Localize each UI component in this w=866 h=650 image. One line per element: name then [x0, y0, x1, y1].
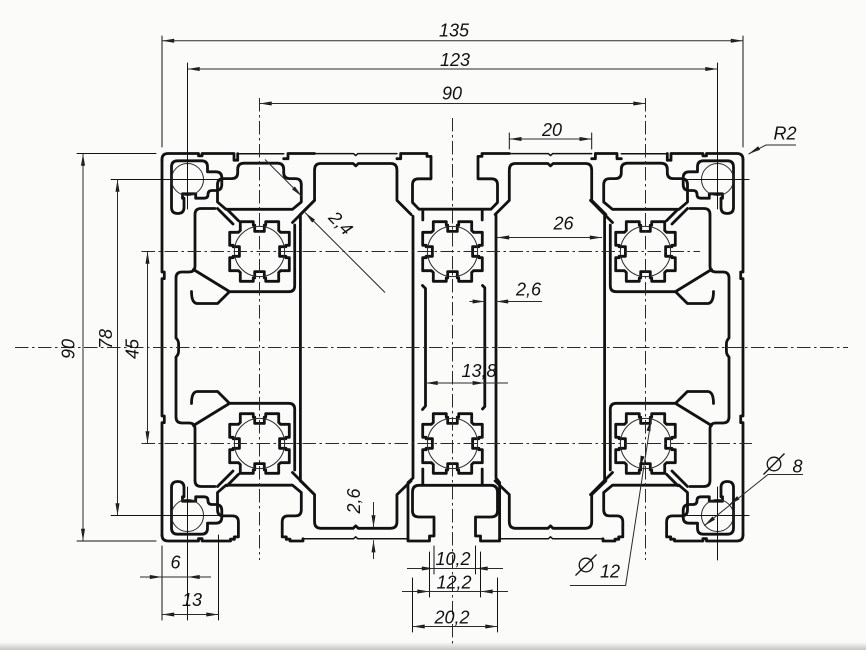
- dim 45 line with arrows: [146, 252, 150, 444]
- profile outer contour - bottom edge with center T-slot mouth: [162, 485, 743, 541]
- top-right corner screw hole circle: [702, 164, 734, 196]
- svg-text:20,2: 20,2: [433, 608, 469, 628]
- bottom web face right channel: [500, 537, 603, 539]
- top-left hole vertical centerline / ext: [187, 63, 189, 209]
- dim 12,2 extension lines: [430, 552, 481, 597]
- dim 13 extension line (block edge): [218, 535, 220, 620]
- dim 13 arrows: [162, 613, 219, 617]
- cell right SE thin wall pair: [591, 473, 613, 495]
- gear boss U2 (center top) thread circle: [427, 226, 477, 276]
- bottom web face left channel: [303, 537, 408, 539]
- gear boss U1 (left top) thread circle: [234, 226, 284, 276]
- svg-text:6: 6: [170, 553, 181, 573]
- svg-text:R2: R2: [773, 124, 796, 144]
- cell right inner void boundary along outer wall: [690, 209, 729, 487]
- cell left inner void boundary along outer wall: [176, 209, 215, 487]
- dim 2,6 web arrows: [372, 515, 376, 552]
- bottom-left hole vertical centerline / ext: [187, 487, 189, 620]
- cell right SW diagonal wall pair: [667, 471, 688, 487]
- svg-text:2,6: 2,6: [515, 280, 542, 300]
- right bottom channel web floor, walls and chamfers: [495, 481, 606, 528]
- column inner wall left upper stub: [421, 210, 424, 221]
- svg-text:135: 135: [439, 21, 470, 41]
- dim 78 extension lines: [111, 180, 157, 516]
- dim 20 line with arrows: [509, 137, 591, 141]
- vertical main centerline: [452, 118, 454, 645]
- bottom-right corner screw hole circle: [702, 500, 734, 532]
- diameter symbol for dia 12: [579, 558, 593, 572]
- dim 12,2 arrows: [417, 590, 492, 594]
- top-right hole vertical centerline / ext: [717, 63, 719, 209]
- svg-text:2,6: 2,6: [344, 488, 364, 515]
- dim 20 extension lines: [509, 133, 591, 149]
- svg-text:123: 123: [440, 50, 470, 70]
- right gear column centerline: [645, 98, 647, 560]
- cell right bottom boss T-slot (open): [604, 485, 688, 539]
- dim 10,2 extension lines: [434, 546, 476, 574]
- svg-text:13: 13: [182, 590, 202, 610]
- left gear column centerline: [259, 98, 261, 560]
- svg-text:90: 90: [59, 339, 79, 359]
- column inner wall right upper stub: [481, 210, 484, 221]
- top-right corner pocket outline: [683, 161, 733, 214]
- svg-text:13,8: 13,8: [461, 361, 496, 381]
- bottom gear row centerline: [142, 443, 753, 445]
- dim 90 left line with arrows: [81, 154, 85, 542]
- cell left NW diagonal wall pair: [218, 209, 239, 225]
- cell left NE thin wall pair: [293, 200, 315, 222]
- horizontal main centerline: [15, 347, 848, 349]
- svg-text:8: 8: [792, 457, 802, 477]
- cell left passage diagonal top: [194, 270, 229, 292]
- cell left room ceiling: [192, 225, 295, 304]
- cell right NW diagonal wall pair: [667, 209, 688, 225]
- dim 20,2 arrows: [413, 625, 498, 629]
- left bottom channel web floor, walls and chamfers: [300, 481, 411, 528]
- top membrane over right boss slot: [621, 153, 667, 155]
- bottom-right hole vertical centerline / ext: [717, 487, 719, 560]
- top membrane over right channel: [509, 154, 591, 156]
- cell right room floor: [610, 392, 713, 471]
- gear boss U2 (center top) chamber outline: [423, 222, 483, 282]
- svg-text:45: 45: [123, 338, 143, 359]
- bottom-left corner screw hole circle: [172, 500, 204, 532]
- cell left passage diagonal bottom: [194, 404, 229, 426]
- column inner wall left lower stub: [421, 469, 424, 484]
- dim 6 extension line (profile edge): [161, 546, 163, 620]
- center column right outer wall: [496, 215, 500, 540]
- dim 6 arrows: [150, 575, 200, 579]
- svg-text:26: 26: [552, 214, 574, 234]
- svg-text:90: 90: [442, 84, 462, 104]
- gear boss U3 (right top) chamber outline: [616, 222, 676, 282]
- gear boss U6 (right bottom) thread circle: [620, 418, 670, 468]
- top-left corner screw hole circle: [172, 164, 204, 196]
- gear boss U5 (center bottom) chamber outline: [423, 414, 483, 474]
- top-left corner pocket outline: [172, 161, 222, 214]
- gear boss U1 (left top) chamber outline: [230, 222, 290, 282]
- center column left outer wall: [408, 216, 413, 540]
- diameter symbol for dia 8: [767, 457, 781, 471]
- profile outer contour - right edge with notches: [741, 160, 743, 536]
- gear boss U5 (center bottom) thread circle: [427, 418, 477, 468]
- leader dia8 arrows: [704, 496, 739, 526]
- dim 20,2 extension lines: [413, 578, 498, 632]
- svg-text:10,2: 10,2: [435, 549, 470, 569]
- cell left room floor: [192, 392, 295, 471]
- svg-text:12: 12: [600, 562, 620, 582]
- dim 2,4 arrows: [292, 187, 315, 223]
- dim 90 left extension lines: [77, 154, 156, 542]
- cell right NE thin wall pair: [591, 200, 613, 222]
- dim 2,6 arrows: [473, 300, 509, 304]
- right top channel slot - recess floor, walls and chamfers: [495, 164, 606, 215]
- top-left corner hole crosshair: [156, 179, 231, 181]
- svg-text:78: 78: [96, 329, 116, 349]
- bottom-right corner pocket outline: [683, 482, 733, 535]
- gear boss U6 (right bottom) chamber outline: [616, 414, 676, 474]
- cell-1 right wall (left channel left side): [299, 215, 302, 481]
- cell right passage diagonal bottom: [677, 404, 712, 426]
- top gear row centerline: [142, 251, 701, 253]
- dim 135 line with arrows: [162, 39, 743, 43]
- gear boss U4 (left bottom) chamber outline: [230, 414, 290, 474]
- cell left bottom boss T-slot (open): [218, 485, 302, 539]
- dim 13,8 line with arrows: [426, 381, 485, 385]
- dim 90 top line with arrows: [260, 102, 646, 106]
- dim 26 line with arrows: [497, 236, 602, 240]
- cell right passage diagonal top: [677, 270, 712, 292]
- top-right corner hole crosshair: [674, 179, 749, 181]
- cell right top boss slot cavity: [604, 163, 688, 209]
- top membrane over left channel: [315, 154, 397, 156]
- bottom-left corner hole crosshair: [156, 515, 231, 517]
- profile outer contour - top edge with T-slot mouth and steps: [162, 154, 743, 210]
- bottom-right corner hole crosshair: [674, 515, 749, 517]
- column inner wall left: [423, 286, 426, 410]
- cell-3 left wall (right channel right side): [603, 215, 606, 481]
- dim 10,2 arrows: [422, 567, 488, 571]
- leader dia12 arrows: [640, 419, 651, 468]
- left top channel slot - recess floor, walls and chamfers: [300, 164, 411, 215]
- column inner wall right lower stub: [481, 469, 484, 484]
- dim 135 extension lines: [162, 36, 743, 147]
- svg-text:12,2: 12,2: [436, 573, 471, 593]
- cell right room ceiling: [610, 225, 713, 304]
- dim 123 line with arrows: [188, 67, 718, 71]
- leader R2 arrow: [749, 146, 761, 154]
- top membrane over left boss slot: [238, 153, 284, 155]
- dim 78 line with arrows: [116, 180, 120, 516]
- svg-text:20: 20: [541, 120, 562, 140]
- cell left top boss slot cavity: [218, 163, 302, 209]
- bottom-left corner pocket outline: [172, 482, 222, 535]
- column inner wall right: [483, 286, 485, 410]
- cell left SW diagonal wall pair: [218, 471, 239, 487]
- gear boss U3 (right top) thread circle: [620, 226, 670, 276]
- profile outer contour - left edge with notches: [162, 160, 164, 536]
- cell left SE thin wall pair: [293, 473, 315, 495]
- gear boss U4 (left bottom) thread circle: [234, 418, 284, 468]
